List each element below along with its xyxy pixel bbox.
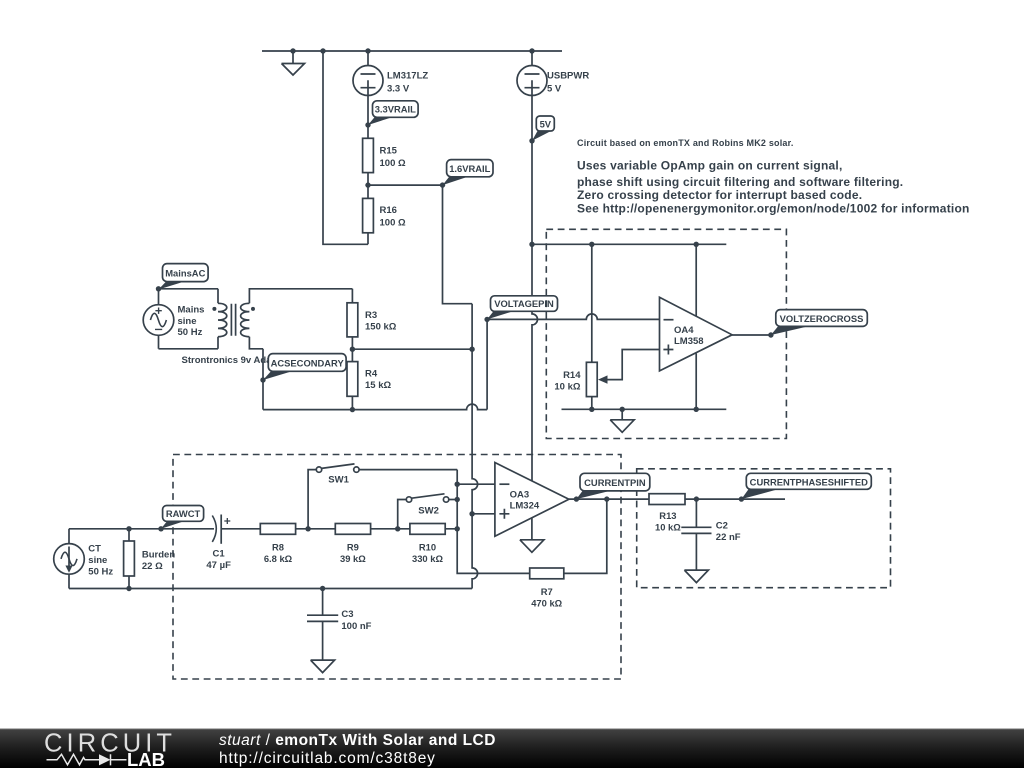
label C1 47uF — [206, 549, 231, 571]
svg-text:http://circuitlab.com/c38t8ey: http://circuitlab.com/c38t8ey — [219, 750, 436, 767]
svg-text:10 kΩ: 10 kΩ — [655, 521, 681, 532]
resistor R13 — [649, 494, 685, 505]
transformer phase dot secondary — [251, 307, 255, 311]
svg-text:LM317LZ: LM317LZ — [387, 71, 428, 82]
svg-text:LM324: LM324 — [510, 501, 540, 512]
wire plus input bias — [472, 513, 495, 515]
node: R14 bottom/rail — [589, 407, 594, 412]
node VOLTZEROCROSS — [768, 332, 773, 337]
svg-text:5 V: 5 V — [547, 84, 562, 95]
node: ground stem/rail — [620, 407, 625, 412]
label R9 39k — [340, 541, 366, 563]
node: bus/minus wire — [455, 482, 460, 487]
node: divider/1.6V junction — [469, 347, 474, 352]
label R15 100ohm — [380, 145, 406, 168]
resistor R15 — [363, 125, 374, 185]
wire R13 output — [685, 498, 785, 500]
node: dot USBPWR top — [529, 48, 534, 53]
svg-text:50 Hz: 50 Hz — [178, 327, 203, 338]
label R16 100ohm — [380, 205, 406, 228]
wire secondary top to R3 — [249, 289, 352, 304]
svg-text:15 kΩ: 15 kΩ — [365, 380, 391, 391]
wire feedback riser — [564, 499, 607, 573]
resistor R10 — [410, 524, 445, 535]
node: feedback tap — [604, 496, 609, 501]
node: SW2 branch — [395, 526, 400, 531]
label R7 470k — [531, 586, 562, 608]
label R4 15k — [365, 368, 391, 390]
capacitor C1 47uF (polarized) — [212, 515, 260, 544]
wire VOLTAGEPIN riser — [486, 319, 488, 409]
svg-text:See http://openenergymonitor.o: See http://openenergymonitor.org/emon/no… — [577, 201, 970, 215]
wire OA4 power riser top — [695, 244, 697, 316]
svg-text:C1: C1 — [213, 549, 226, 560]
svg-text:SW1: SW1 — [328, 475, 349, 486]
dashed box phase shift filter — [637, 469, 891, 588]
resistor R7 — [530, 568, 564, 579]
svg-text:Zero crossing detector for int: Zero crossing detector for interrupt bas… — [577, 188, 862, 202]
transformer TX1 core — [231, 304, 235, 336]
node VOLTAGEPIN — [484, 317, 489, 322]
wire mains primary loop — [159, 289, 219, 349]
label C2 22nF — [716, 521, 741, 543]
svg-text:C2: C2 — [716, 521, 728, 532]
svg-text:R8: R8 — [272, 541, 284, 552]
node: dot LM317 top — [365, 48, 370, 53]
ground (top left) — [282, 51, 305, 75]
node: R15/R16 junction — [365, 182, 370, 187]
label C3 100nF — [341, 609, 371, 632]
node MainsAC — [156, 286, 161, 291]
node: 1.6V/plus input — [469, 511, 474, 516]
svg-text:330 kΩ: 330 kΩ — [412, 553, 443, 564]
svg-text:OA4: OA4 — [674, 325, 694, 336]
svg-text:100 Ω: 100 Ω — [380, 218, 406, 229]
svg-text:MainsAC: MainsAC — [165, 268, 205, 279]
footer bar — [0, 728, 1024, 768]
flag ACSECONDARY — [263, 354, 346, 380]
svg-text:USBPWR: USBPWR — [547, 71, 589, 82]
svg-text:Uses variable OpAmp gain on cu: Uses variable OpAmp gain on current sign… — [577, 158, 843, 172]
logo resistor-diode squiggle — [47, 754, 127, 765]
op-amp OA3 LM324 — [495, 463, 569, 537]
wire top power rail — [262, 50, 562, 52]
note text block — [577, 138, 970, 215]
svg-text:phase shift using circuit filt: phase shift using circuit filtering and … — [577, 175, 903, 189]
label Burden 22ohm — [142, 549, 175, 571]
node: burden top — [126, 526, 131, 531]
capacitor C2 22nF — [681, 499, 711, 570]
ground (C3) — [311, 660, 335, 673]
wire to 1.6VRAIL node — [368, 184, 443, 186]
svg-text:sine: sine — [178, 316, 197, 327]
svg-text:R7: R7 — [541, 586, 553, 597]
op-amp OA4 LM358 — [660, 297, 733, 371]
node 1.6VRAIL — [440, 182, 445, 187]
svg-text:LAB: LAB — [127, 749, 165, 768]
svg-text:R16: R16 — [380, 205, 397, 216]
node RAWCT — [158, 526, 163, 531]
svg-text:R15: R15 — [380, 145, 398, 156]
wire OA3 output — [569, 498, 649, 500]
node 5V — [529, 138, 534, 143]
node: C3 tap — [320, 586, 325, 591]
potentiometer R14 — [586, 350, 659, 410]
node: OA4 rail/R14 riser — [589, 242, 594, 247]
svg-text:3.3VRAIL: 3.3VRAIL — [375, 104, 416, 115]
wire 1.6VRAIL distribution (hops wires at 484 and 573) — [443, 185, 478, 588]
resistor Burden 22ohm — [124, 529, 135, 589]
node: power riser/rail — [694, 407, 699, 412]
svg-text:C3: C3 — [341, 609, 353, 620]
svg-text:CURRENTPHASESHIFTED: CURRENTPHASESHIFTED — [750, 476, 868, 487]
node CURRENTPHASESHIFTED — [739, 496, 744, 501]
label R10 330k — [412, 541, 443, 563]
svg-text:10 kΩ: 10 kΩ — [554, 381, 580, 392]
node: R4 bottom junction — [350, 407, 355, 412]
wire OA4 top supply rail — [532, 243, 726, 245]
wire divider mid to 1.6V line — [352, 348, 472, 350]
svg-text:470 kΩ: 470 kΩ — [531, 597, 562, 608]
label LM317LZ value — [387, 71, 428, 95]
svg-text:150 kΩ: 150 kΩ — [365, 321, 397, 332]
label R8 6.8k — [264, 541, 293, 563]
flag VOLTZEROCROSS — [771, 310, 867, 335]
switch SW2 — [398, 494, 458, 529]
svg-text:OA3: OA3 — [510, 489, 530, 500]
label R14 10k — [554, 370, 581, 392]
wire bottom bias rail — [69, 588, 472, 590]
wire OA4 bottom rail — [562, 408, 727, 410]
svg-text:ACSECONDARY: ACSECONDARY — [271, 357, 345, 368]
dashed box current amplifier — [173, 455, 621, 680]
capacitor C3 100nF — [307, 589, 338, 661]
svg-text:R13: R13 — [659, 510, 676, 521]
node: C2 tap — [694, 496, 699, 501]
node: SW1 branch — [305, 526, 310, 531]
svg-text:1.6VRAIL: 1.6VRAIL — [449, 163, 490, 174]
label Mains sine 50Hz — [178, 304, 205, 338]
wire minus input — [457, 483, 495, 485]
svg-text:VOLTAGEPIN: VOLTAGEPIN — [494, 298, 554, 309]
ground (OA3) — [520, 518, 544, 552]
svg-text:RAWCT: RAWCT — [166, 508, 201, 519]
svg-text:LM358: LM358 — [674, 336, 704, 347]
flag CURRENTPHASESHIFTED — [741, 473, 871, 499]
flag 1.6VRAIL — [443, 160, 494, 186]
label OA3 LM324 — [510, 489, 540, 511]
wire CT top to C1 — [69, 528, 214, 530]
svg-text:39 kΩ: 39 kΩ — [340, 553, 366, 564]
resistor R4 — [347, 349, 358, 409]
wire R8 to R9 — [296, 528, 336, 530]
wire 5V supply down to OA3 (hops VOLTAGEPIN wire) — [532, 96, 538, 481]
label CT sine 50Hz — [88, 544, 113, 578]
transformer TX1 primary coil — [218, 303, 227, 336]
wire left return branch — [323, 51, 368, 244]
wire inverting input bus — [445, 470, 530, 574]
label USBPWR value — [547, 71, 589, 95]
svg-text:sine: sine — [88, 555, 107, 566]
flag VOLTAGEPIN — [487, 296, 557, 320]
wire OA4 power riser bottom — [695, 354, 697, 410]
svg-text:CURRENTPIN: CURRENTPIN — [584, 477, 646, 488]
transformer TX1 secondary coil — [241, 303, 250, 336]
svg-text:R3: R3 — [365, 310, 377, 321]
svg-text:VOLTZEROCROSS: VOLTZEROCROSS — [780, 313, 864, 324]
node B: junction dot left branch/top rail — [320, 48, 325, 53]
wire secondary bottom to ACSECONDARY branch — [249, 337, 263, 410]
svg-text:47 µF: 47 µF — [206, 560, 231, 571]
wire VOLTAGEPIN to OA4 minus (hops R14 riser) — [487, 314, 659, 320]
svg-text:5V: 5V — [540, 118, 552, 129]
svg-text:CT: CT — [88, 544, 101, 555]
node: bus/R10 — [455, 526, 460, 531]
node: R3/R4 junction — [350, 347, 355, 352]
svg-text:100 nF: 100 nF — [341, 621, 371, 632]
node A: junction dot ground/top rail — [290, 48, 295, 53]
svg-text:100 Ω: 100 Ω — [380, 158, 406, 169]
label OA4 LM358 — [674, 325, 704, 347]
node: bus/SW2 — [455, 497, 460, 502]
svg-text:R9: R9 — [347, 541, 359, 552]
svg-text:stuart / emonTx With Solar and: stuart / emonTx With Solar and LCD — [219, 732, 496, 749]
svg-text:R4: R4 — [365, 368, 378, 379]
ground (OA4 bias rail) — [610, 409, 634, 432]
node 3.3VRAIL — [365, 122, 370, 127]
svg-text:50 Hz: 50 Hz — [88, 566, 113, 577]
current source CT sine 50Hz — [54, 529, 85, 589]
label R3 150k — [365, 310, 397, 332]
resistor R16 — [363, 185, 374, 244]
wire transformer bottom rail (hops 1.6V line) — [263, 404, 487, 409]
svg-text:22 Ω: 22 Ω — [142, 561, 163, 572]
flag 3.3VRAIL — [368, 101, 418, 125]
svg-text:SW2: SW2 — [418, 505, 439, 516]
switch SW1 — [308, 464, 457, 529]
voltage source LM317LZ 3.3V — [353, 51, 383, 125]
svg-text:22 nF: 22 nF — [716, 532, 741, 543]
node CURRENTPIN — [574, 496, 579, 501]
svg-text:Mains: Mains — [178, 304, 205, 315]
transformer phase dot primary — [212, 307, 216, 311]
flag CURRENTPIN — [576, 473, 649, 499]
svg-text:3.3 V: 3.3 V — [387, 84, 410, 95]
resistor R8 — [260, 524, 295, 535]
resistor R3 — [347, 289, 358, 349]
wire R14 riser — [591, 244, 593, 362]
node: burden bottom — [126, 586, 131, 591]
flag RAWCT — [161, 506, 204, 529]
svg-text:Burden: Burden — [142, 549, 175, 560]
svg-text:6.8 kΩ: 6.8 kΩ — [264, 553, 293, 564]
node ACSECONDARY — [260, 377, 265, 382]
flag 5V — [532, 116, 554, 141]
svg-text:Circuit based on emonTX and Ro: Circuit based on emonTX and Robins MK2 s… — [577, 138, 794, 148]
svg-text:R10: R10 — [419, 541, 436, 552]
dashed box zero-cross detector — [546, 229, 786, 438]
wire R9 to R10 — [371, 528, 410, 530]
wire OA4 output — [732, 334, 771, 336]
node: 5V / OA4 top rail junction — [529, 242, 534, 247]
svg-text:R14: R14 — [563, 370, 581, 381]
voltage source USBPWR 5V — [517, 51, 547, 96]
voltage source Mains sine 50Hz — [143, 305, 174, 336]
ground (C2) — [684, 570, 708, 583]
node: OA4 rail/power riser — [694, 242, 699, 247]
label R13 10k — [655, 510, 681, 532]
flag MainsAC — [159, 264, 209, 290]
resistor R9 — [335, 524, 370, 535]
